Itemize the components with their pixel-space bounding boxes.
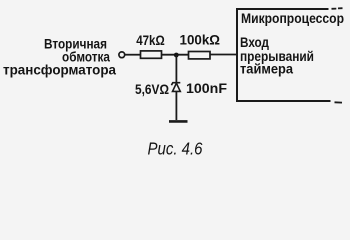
svg-text:Вход: Вход bbox=[240, 35, 269, 50]
svg-text:5,6VΩ: 5,6VΩ bbox=[135, 82, 169, 98]
svg-text:100kΩ: 100kΩ bbox=[180, 33, 221, 49]
svg-text:таймера: таймера bbox=[240, 62, 293, 77]
resistor R1 bbox=[141, 51, 162, 58]
microprocessor box U1 bbox=[236, 8, 343, 103]
resistor R2 bbox=[189, 52, 211, 59]
terminal T1 (open circle) bbox=[119, 52, 125, 58]
svg-text:100nF: 100nF bbox=[186, 81, 227, 97]
wire: zener to ground bbox=[175, 91, 177, 120]
label: Вход прерываний таймера bbox=[240, 35, 314, 77]
svg-text:47kΩ: 47kΩ bbox=[136, 33, 165, 49]
wire: R1 to R2 bbox=[162, 54, 189, 56]
junction node A bbox=[174, 53, 179, 58]
label: Вторичная обмотка трансформатора bbox=[3, 36, 116, 77]
svg-text:трансформатора: трансформатора bbox=[3, 62, 116, 77]
svg-text:Микропроцессор: Микропроцессор bbox=[241, 11, 344, 26]
wire: R2 to microprocessor box bbox=[210, 54, 237, 56]
wire: junction down to zener bbox=[175, 55, 177, 82]
wire: terminal to R1 bbox=[125, 54, 141, 56]
svg-text:Рис. 4.6: Рис. 4.6 bbox=[148, 138, 203, 158]
zener diode VD1 bbox=[171, 83, 180, 92]
ground bbox=[169, 120, 188, 123]
